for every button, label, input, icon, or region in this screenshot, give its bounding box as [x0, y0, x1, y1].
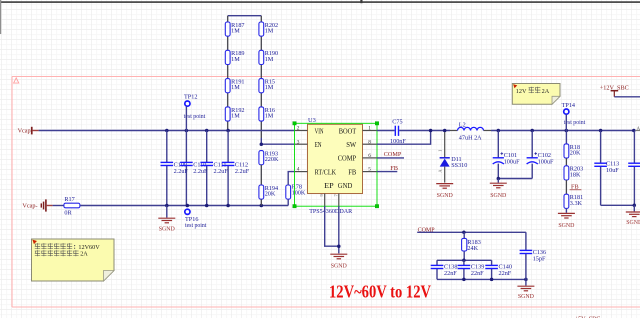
- wire right ladder column lower: [260, 138, 262, 144]
- selection box around U3 (green): [293, 122, 379, 208]
- net label COMP at pin 6: [377, 151, 404, 158]
- resistor R15: [259, 79, 275, 93]
- svg-text:1M: 1M: [265, 113, 274, 120]
- svg-text:2.2uF: 2.2uF: [235, 168, 250, 175]
- svg-text:20K: 20K: [570, 150, 581, 157]
- node junction TP14/R18: [565, 129, 569, 133]
- wire bottom bus: [80, 205, 288, 207]
- svg-text:Vcap: Vcap: [18, 128, 31, 135]
- svg-text:2.2uF: 2.2uF: [214, 168, 229, 175]
- test point TP14: [562, 102, 586, 126]
- svg-text:FB: FB: [571, 183, 579, 190]
- wire C112 leads: [227, 131, 229, 206]
- svg-text:TPS54360DDAR: TPS54360DDAR: [309, 208, 353, 215]
- svg-text:2.2uF: 2.2uF: [174, 168, 189, 175]
- svg-text:COMP: COMP: [384, 151, 402, 158]
- svg-text:SGND: SGND: [331, 264, 348, 270]
- svg-text:L2: L2: [459, 121, 466, 128]
- wire R183 leads: [463, 232, 465, 260]
- ground SGND input: [166, 206, 168, 218]
- node junction C136 bottom: [524, 278, 528, 282]
- svg-text:20K: 20K: [265, 191, 276, 198]
- svg-text:22nF: 22nF: [471, 270, 484, 277]
- svg-text:4: 4: [297, 167, 300, 173]
- svg-text:TP16: TP16: [185, 216, 198, 223]
- wire ladder top connector: [228, 15, 262, 17]
- svg-text:Vcap-: Vcap-: [22, 203, 37, 210]
- wire Vcap- to R17: [53, 205, 64, 207]
- resistor R17: [64, 196, 80, 216]
- wire C111 leads: [206, 131, 208, 206]
- svg-text:1M: 1M: [231, 28, 240, 35]
- capacitor C75: [390, 118, 406, 145]
- wire cap top rail: [437, 259, 492, 261]
- wire C109 leads: [166, 131, 168, 206]
- wire TP14 to bus: [565, 115, 567, 131]
- node junction C102: [530, 129, 534, 133]
- resistor R189: [225, 50, 244, 64]
- svg-text:EP: EP: [324, 183, 334, 190]
- resistor R183: [462, 238, 481, 251]
- svg-text:1: 1: [368, 126, 371, 132]
- svg-text:1: 1: [438, 150, 443, 152]
- svg-text:VIN: VIN: [315, 128, 324, 135]
- pin 4 RT/CLK: [295, 167, 337, 177]
- wire TP12 to bus: [185, 107, 187, 131]
- node junction C112 bottom: [226, 204, 230, 208]
- svg-text:SS310: SS310: [451, 162, 467, 169]
- resistor R194: [259, 185, 278, 199]
- capacitor C102 (polarized): [527, 152, 554, 165]
- capacitor C111: [200, 161, 228, 175]
- node junction bus end: [632, 129, 636, 133]
- svg-text:1M: 1M: [265, 84, 274, 91]
- wire right ladder column (crosses input bus, no junction): [260, 16, 262, 138]
- wire +12V_SBC to right edge: [614, 96, 640, 98]
- net label FB divider: [566, 180, 581, 194]
- svg-text:2: 2: [297, 126, 300, 132]
- capacitor C140: [485, 263, 512, 277]
- svg-text:3: 3: [297, 139, 300, 145]
- wire C138 leads: [436, 260, 438, 279]
- node junction R194 bottom: [260, 204, 264, 208]
- node junction C111 bottom: [205, 204, 209, 208]
- pin 5 FB: [348, 167, 377, 177]
- wire C113 leads: [601, 131, 635, 206]
- wire R194 to bus: [260, 199, 262, 205]
- node junction C139 bottom: [462, 278, 466, 282]
- pin 8 SW: [346, 139, 377, 149]
- port Vcap-: [22, 199, 52, 211]
- node junction C101: [497, 129, 501, 133]
- node junction C112 / ladder: [226, 129, 230, 133]
- svg-text:test point: test point: [185, 223, 207, 229]
- svg-text:12V~60V to 12V: 12V~60V to 12V: [329, 282, 431, 302]
- ground SGND D11: [436, 184, 453, 199]
- svg-text:C75: C75: [392, 118, 402, 125]
- diode D11 SS310: [438, 132, 468, 183]
- wire EN net: [261, 143, 294, 145]
- wire R18 to R203: [565, 158, 567, 166]
- svg-text:SGND: SGND: [437, 193, 454, 199]
- power +12V_SBC: [600, 84, 629, 97]
- capacitor C112: [222, 161, 250, 175]
- wire C110 leads: [185, 131, 187, 206]
- svg-text:SW: SW: [346, 142, 357, 149]
- wire cap bottom rail: [437, 278, 526, 280]
- svg-text:FB: FB: [348, 169, 356, 176]
- node junction C101 ground: [497, 177, 501, 181]
- wire BOOT to C75: [377, 130, 395, 132]
- svg-text:1M: 1M: [265, 28, 274, 35]
- port Vcap: [18, 127, 39, 135]
- note input voltage range: [32, 239, 115, 281]
- capacitor C138: [431, 263, 458, 277]
- svg-text:22nF: 22nF: [499, 270, 512, 277]
- pin 6 COMP: [338, 153, 377, 163]
- ground SGND C113: [633, 205, 635, 211]
- capacitor C110: [180, 161, 208, 175]
- net label COMP (compensation): [417, 226, 526, 233]
- pin 9 EP: [319, 183, 334, 206]
- resistor R181: [564, 194, 583, 208]
- resistor R78: [286, 184, 306, 200]
- wire C139 leads: [463, 260, 465, 279]
- wire C102 leads: [498, 131, 532, 179]
- svg-text:TP12: TP12: [184, 93, 197, 100]
- svg-text:220K: 220K: [265, 156, 279, 163]
- wire SW pin to SW node: [377, 131, 431, 145]
- wire R78 to RT/CLK pin: [288, 172, 294, 185]
- wire C75 to SW node: [399, 130, 450, 132]
- svg-text:test point: test point: [564, 120, 586, 126]
- pin 3 EN: [295, 139, 322, 149]
- wire R181 to ground: [565, 208, 567, 212]
- wire R78 to bottom bus: [287, 199, 289, 205]
- wire C101 leads: [497, 131, 499, 179]
- svg-text:SGND: SGND: [558, 223, 575, 229]
- capacitor C101 (polarized): [493, 152, 520, 165]
- test point TP16: [185, 209, 207, 229]
- wire output bus: [491, 130, 634, 132]
- resistor R203: [564, 166, 583, 180]
- ground SGND C101/C102: [497, 179, 499, 183]
- wire R193 to R194: [260, 165, 262, 185]
- node junction R183 bottom: [462, 259, 466, 263]
- resistor R202: [259, 22, 278, 36]
- pin 2 VIN: [295, 126, 324, 136]
- svg-text:2A: 2A: [80, 251, 88, 258]
- node junction R183 top: [462, 231, 466, 235]
- test point TP12: [184, 93, 206, 120]
- svg-text:R17: R17: [64, 196, 74, 203]
- resistor R16: [259, 107, 275, 121]
- node junction C113 ground: [633, 204, 637, 208]
- svg-text:RT/CLK: RT/CLK: [315, 169, 337, 176]
- wire C136 leads: [525, 232, 527, 279]
- wire input bus Vcap to VIN: [39, 130, 295, 132]
- svg-text:SGND: SGND: [518, 294, 535, 300]
- svg-text:GND: GND: [338, 183, 353, 190]
- svg-text:24K: 24K: [467, 245, 478, 252]
- svg-text:0R: 0R: [64, 209, 72, 216]
- resistor R192: [225, 107, 244, 121]
- svg-text:2A: 2A: [542, 88, 550, 95]
- resistor R191: [225, 79, 244, 93]
- svg-text:COMP: COMP: [338, 156, 357, 163]
- svg-text:15pF: 15pF: [533, 256, 546, 263]
- wire left ladder column: [227, 16, 229, 131]
- svg-text:SGND: SGND: [490, 193, 507, 199]
- svg-text:1M: 1M: [231, 84, 240, 91]
- svg-text:100K: 100K: [292, 189, 306, 196]
- capacitor C113: [594, 161, 619, 175]
- node junction SGND tap: [165, 204, 169, 208]
- inductor L2 47uH 2A: [450, 121, 491, 141]
- svg-text:FB: FB: [390, 165, 398, 172]
- svg-text:SGND: SGND: [626, 220, 640, 226]
- svg-text:BOOT: BOOT: [339, 128, 357, 135]
- svg-text:2.2uF: 2.2uF: [193, 168, 208, 175]
- svg-text:18K: 18K: [570, 171, 581, 178]
- wire edge capacitor leads: [633, 131, 635, 206]
- svg-text:5: 5: [368, 167, 371, 173]
- resistor R18: [564, 144, 581, 158]
- capacitor C109: [161, 161, 189, 175]
- wire off-sheet stub: [636, 130, 640, 132]
- pin 7 GND: [333, 183, 352, 206]
- svg-text:SGND: SGND: [159, 226, 176, 232]
- resistor R190: [259, 50, 278, 64]
- wire EP/GND to ground: [325, 206, 339, 253]
- node junction EN: [260, 142, 264, 146]
- svg-text:47uH 2A: 47uH 2A: [459, 135, 482, 142]
- note 12V max 2A: [512, 84, 560, 105]
- svg-text:12V: 12V: [516, 88, 527, 95]
- node junction C140 bottom: [490, 278, 494, 282]
- capacitor at right edge: [628, 163, 640, 166]
- capacitor C139: [458, 263, 485, 277]
- svg-text:1M: 1M: [265, 56, 274, 63]
- resistor R187: [225, 22, 244, 36]
- wire R18 top: [565, 131, 567, 144]
- ground SGND COMP: [525, 279, 527, 285]
- svg-text:1M: 1M: [231, 113, 240, 120]
- capacitor C136: [520, 249, 547, 263]
- svg-text:TP14: TP14: [562, 102, 575, 109]
- node junction C111 top: [205, 129, 209, 133]
- svg-text:10uF: 10uF: [606, 167, 619, 174]
- svg-text:6: 6: [368, 153, 371, 159]
- svg-text:100uF: 100uF: [538, 158, 554, 165]
- svg-text:22nF: 22nF: [444, 270, 457, 277]
- node junction EP-GND: [337, 244, 341, 248]
- svg-text:100uF: 100uF: [504, 158, 520, 165]
- svg-text:3.3K: 3.3K: [570, 200, 583, 207]
- ground SGND U3: [330, 254, 347, 269]
- resistor R193: [259, 151, 279, 165]
- net label FB at pin 5: [377, 165, 398, 172]
- op-amp U3 TPS54360DDAR body: [308, 117, 363, 215]
- wire C140 leads: [491, 260, 493, 279]
- svg-text:1M: 1M: [231, 56, 240, 63]
- node junction C109 top: [165, 129, 169, 133]
- node junction D11 top: [443, 129, 447, 133]
- node junction TP16: [186, 204, 190, 208]
- ground SGND R181: [558, 213, 575, 229]
- svg-text:EN: EN: [315, 142, 322, 149]
- svg-text:8: 8: [368, 139, 371, 145]
- pin 1 BOOT: [339, 126, 377, 136]
- node junction SW riser: [429, 129, 433, 133]
- node junction C113: [599, 129, 603, 133]
- node junction C110/TP12 top: [185, 129, 189, 133]
- svg-text:A: A: [637, 127, 640, 132]
